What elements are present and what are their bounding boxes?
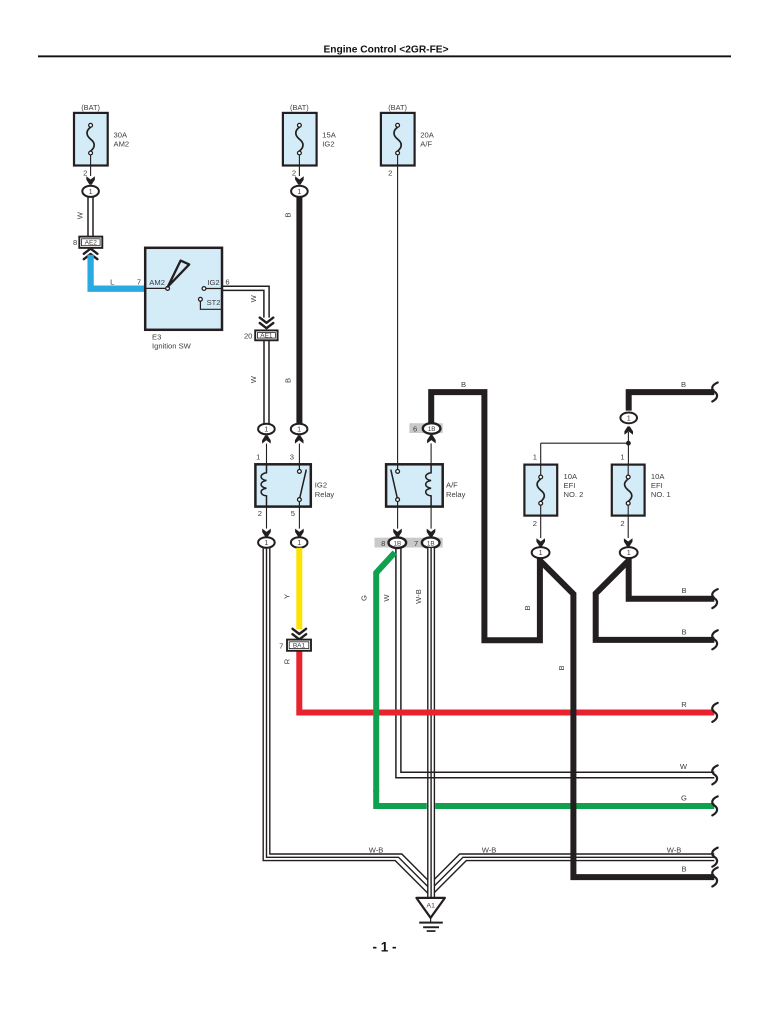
svg-text:ST2: ST2 (207, 298, 221, 307)
svg-text:B: B (681, 380, 686, 389)
svg-text:1: 1 (297, 538, 301, 547)
svg-text:G: G (681, 794, 687, 803)
svg-text:1B: 1B (428, 426, 436, 433)
svg-text:Ignition SW: Ignition SW (152, 341, 192, 350)
svg-text:1: 1 (533, 452, 537, 461)
svg-text:Engine Control <2GR-FE>: Engine Control <2GR-FE> (323, 45, 448, 56)
svg-text:A1: A1 (427, 903, 436, 910)
svg-text:8: 8 (381, 539, 385, 548)
svg-text:Relay: Relay (446, 490, 466, 499)
svg-text:20A: 20A (420, 131, 434, 140)
svg-text:Y: Y (282, 594, 291, 599)
svg-text:W: W (249, 294, 258, 302)
svg-text:8: 8 (73, 238, 77, 247)
svg-text:2: 2 (620, 519, 624, 528)
svg-text:B: B (461, 380, 466, 389)
svg-text:10A: 10A (564, 472, 578, 481)
svg-text:1: 1 (539, 548, 543, 557)
svg-text:2: 2 (83, 168, 87, 177)
svg-text:1: 1 (627, 414, 631, 423)
svg-text:1: 1 (256, 452, 260, 461)
svg-text:AE2: AE2 (85, 240, 98, 247)
svg-text:1: 1 (297, 187, 301, 196)
svg-text:(BAT): (BAT) (290, 103, 309, 112)
svg-text:6: 6 (225, 277, 229, 286)
svg-text:2: 2 (258, 509, 262, 518)
svg-text:AM2: AM2 (114, 140, 130, 149)
svg-text:A/F: A/F (446, 481, 458, 490)
svg-text:1B: 1B (393, 540, 401, 547)
svg-text:W: W (382, 594, 391, 602)
svg-text:W-B: W-B (667, 846, 682, 855)
svg-text:15A: 15A (322, 131, 336, 140)
svg-text:10A: 10A (651, 472, 665, 481)
svg-text:W-B: W-B (414, 589, 423, 604)
svg-text:B: B (283, 378, 292, 383)
svg-text:G: G (360, 595, 369, 601)
svg-text:B: B (681, 865, 686, 874)
svg-text:(BAT): (BAT) (388, 103, 407, 112)
svg-text:B: B (681, 627, 686, 636)
svg-text:NO. 2: NO. 2 (564, 490, 584, 499)
svg-text:R: R (681, 700, 687, 709)
svg-text:30A: 30A (114, 131, 128, 140)
svg-text:E3: E3 (152, 332, 161, 341)
svg-text:W-B: W-B (369, 846, 384, 855)
svg-text:AM2: AM2 (149, 278, 165, 287)
svg-text:Relay: Relay (315, 490, 335, 499)
svg-text:1: 1 (297, 425, 301, 434)
svg-text:7: 7 (414, 539, 418, 548)
svg-text:B: B (557, 665, 566, 670)
svg-text:20: 20 (244, 331, 252, 340)
svg-text:1: 1 (89, 187, 93, 196)
svg-text:IG2: IG2 (322, 140, 334, 149)
svg-text:5: 5 (291, 509, 295, 518)
svg-text:- 1 -: - 1 - (372, 939, 396, 954)
svg-text:AE1: AE1 (260, 333, 273, 340)
svg-text:W-B: W-B (482, 846, 497, 855)
svg-text:7: 7 (137, 277, 141, 286)
svg-text:3: 3 (290, 452, 294, 461)
svg-text:7: 7 (279, 641, 283, 650)
svg-text:6: 6 (413, 425, 417, 434)
svg-text:1: 1 (627, 548, 631, 557)
svg-text:2: 2 (292, 168, 296, 177)
svg-text:1: 1 (264, 538, 268, 547)
svg-text:2: 2 (533, 519, 537, 528)
svg-text:W: W (249, 375, 258, 383)
svg-text:B: B (283, 212, 292, 217)
svg-text:1: 1 (620, 452, 624, 461)
svg-text:IG2: IG2 (315, 481, 327, 490)
svg-text:W: W (680, 762, 688, 771)
svg-text:IG2: IG2 (207, 278, 219, 287)
svg-text:B: B (681, 586, 686, 595)
svg-text:1B: 1B (427, 540, 435, 547)
svg-text:W: W (76, 211, 85, 219)
svg-text:EFI: EFI (651, 481, 663, 490)
svg-text:R: R (282, 658, 291, 664)
svg-text:L: L (110, 277, 114, 286)
svg-text:B: B (523, 605, 532, 610)
svg-text:(BAT): (BAT) (81, 103, 100, 112)
svg-text:A/F: A/F (420, 140, 432, 149)
svg-text:BA1: BA1 (293, 643, 306, 650)
svg-text:2: 2 (388, 168, 392, 177)
svg-text:NO. 1: NO. 1 (651, 490, 671, 499)
svg-text:EFI: EFI (564, 481, 576, 490)
svg-text:1: 1 (264, 425, 268, 434)
